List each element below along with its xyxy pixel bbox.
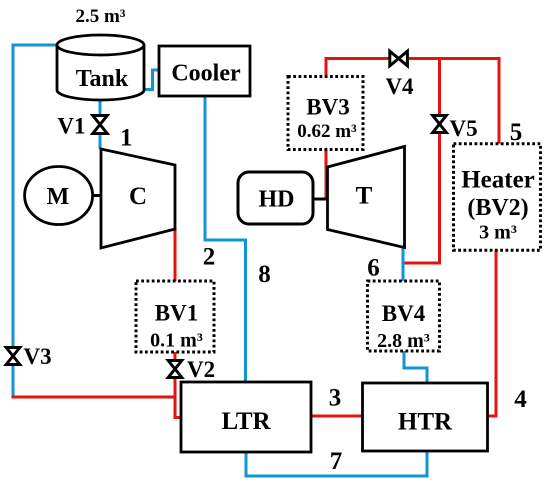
wire red: compressor outlet to BV1 top [174, 227, 177, 282]
wire blue: turbine outlet to BV4 (node 6) [402, 247, 405, 282]
svg-text:Heater: Heater [461, 167, 535, 194]
svg-text:1: 1 [120, 125, 133, 152]
svg-text:5: 5 [510, 119, 523, 146]
valve V1 [93, 116, 107, 134]
svg-text:4: 4 [514, 386, 527, 413]
wire blue: cooler bottom to LTR top (nodes 2,8) [205, 96, 246, 382]
wire red: heater bottom to HTR right (node 4) [488, 249, 496, 416]
svg-text:LTR: LTR [221, 408, 271, 435]
valve V3 [6, 348, 20, 365]
wire red: V4 junction through V5 to turbine outlet [405, 59, 440, 264]
LTR recuperator [181, 382, 311, 452]
bypass vessel BV1 [136, 281, 214, 352]
svg-text:V4: V4 [385, 74, 414, 99]
wire red: V3 corner to V2 line [12, 396, 176, 399]
svg-text:2.8 m³: 2.8 m³ [377, 330, 430, 352]
cooler [159, 46, 250, 96]
svg-text:BV4: BV4 [382, 301, 426, 326]
wire blue: tank left to V3 down-left side [13, 45, 58, 396]
wire black: motor to compressor shaft [93, 194, 102, 197]
wire red: BV3 bottom to turbine inlet [325, 149, 328, 198]
bypass vessel BV3 [288, 77, 363, 150]
wire blue: tank bottom to compressor inlet [99, 97, 102, 149]
svg-text:V5: V5 [450, 116, 478, 141]
turbine T [328, 147, 405, 248]
svg-text:3: 3 [329, 385, 342, 412]
wire black: HD to turbine shaft [312, 198, 328, 201]
svg-text:HTR: HTR [398, 409, 453, 436]
valve V5 [433, 116, 447, 133]
svg-text:(BV2): (BV2) [467, 195, 528, 221]
svg-text:8: 8 [258, 261, 271, 288]
wire red: LTR to HTR (node 3) [311, 415, 363, 418]
HTR recuperator [363, 383, 488, 451]
svg-text:T: T [356, 183, 373, 210]
svg-text:Cooler: Cooler [171, 61, 241, 87]
svg-text:BV3: BV3 [306, 95, 349, 120]
svg-text:2: 2 [203, 244, 216, 271]
wire blue: BV4 bottom to HTR top [404, 350, 427, 384]
svg-text:0.62 m³: 0.62 m³ [297, 121, 357, 142]
bypass vessel BV4 [368, 281, 440, 351]
valve V4 [390, 51, 408, 66]
compressor C [101, 149, 175, 248]
svg-text:7: 7 [330, 448, 343, 475]
svg-text:C: C [129, 183, 147, 210]
svg-text:2.5 m³: 2.5 m³ [75, 6, 125, 27]
svg-text:0.1 m³: 0.1 m³ [150, 330, 203, 352]
svg-text:M: M [47, 184, 70, 210]
heater (BV2) [454, 144, 541, 251]
tank (2.5 m3) [57, 35, 144, 100]
wire red: BV1 bottom through V2 to LTR left [175, 351, 182, 418]
svg-text:3 m³: 3 m³ [479, 222, 517, 244]
motor M [25, 167, 93, 225]
svg-text:V1: V1 [57, 114, 85, 139]
svg-text:HD: HD [259, 187, 295, 213]
svg-text:V3: V3 [24, 344, 52, 369]
wire blue: tank right to cooler [143, 70, 159, 90]
wire blue: LTR bottom to HTR bottom (node 7) [246, 451, 427, 476]
HD box [238, 172, 313, 224]
svg-text:BV1: BV1 [155, 301, 198, 326]
svg-text:Tank: Tank [76, 66, 129, 92]
wire red: heater top through V4 to BV3 top [326, 59, 499, 147]
svg-text:V2: V2 [187, 357, 215, 382]
svg-text:6: 6 [367, 255, 380, 282]
valve V2 [168, 361, 182, 378]
